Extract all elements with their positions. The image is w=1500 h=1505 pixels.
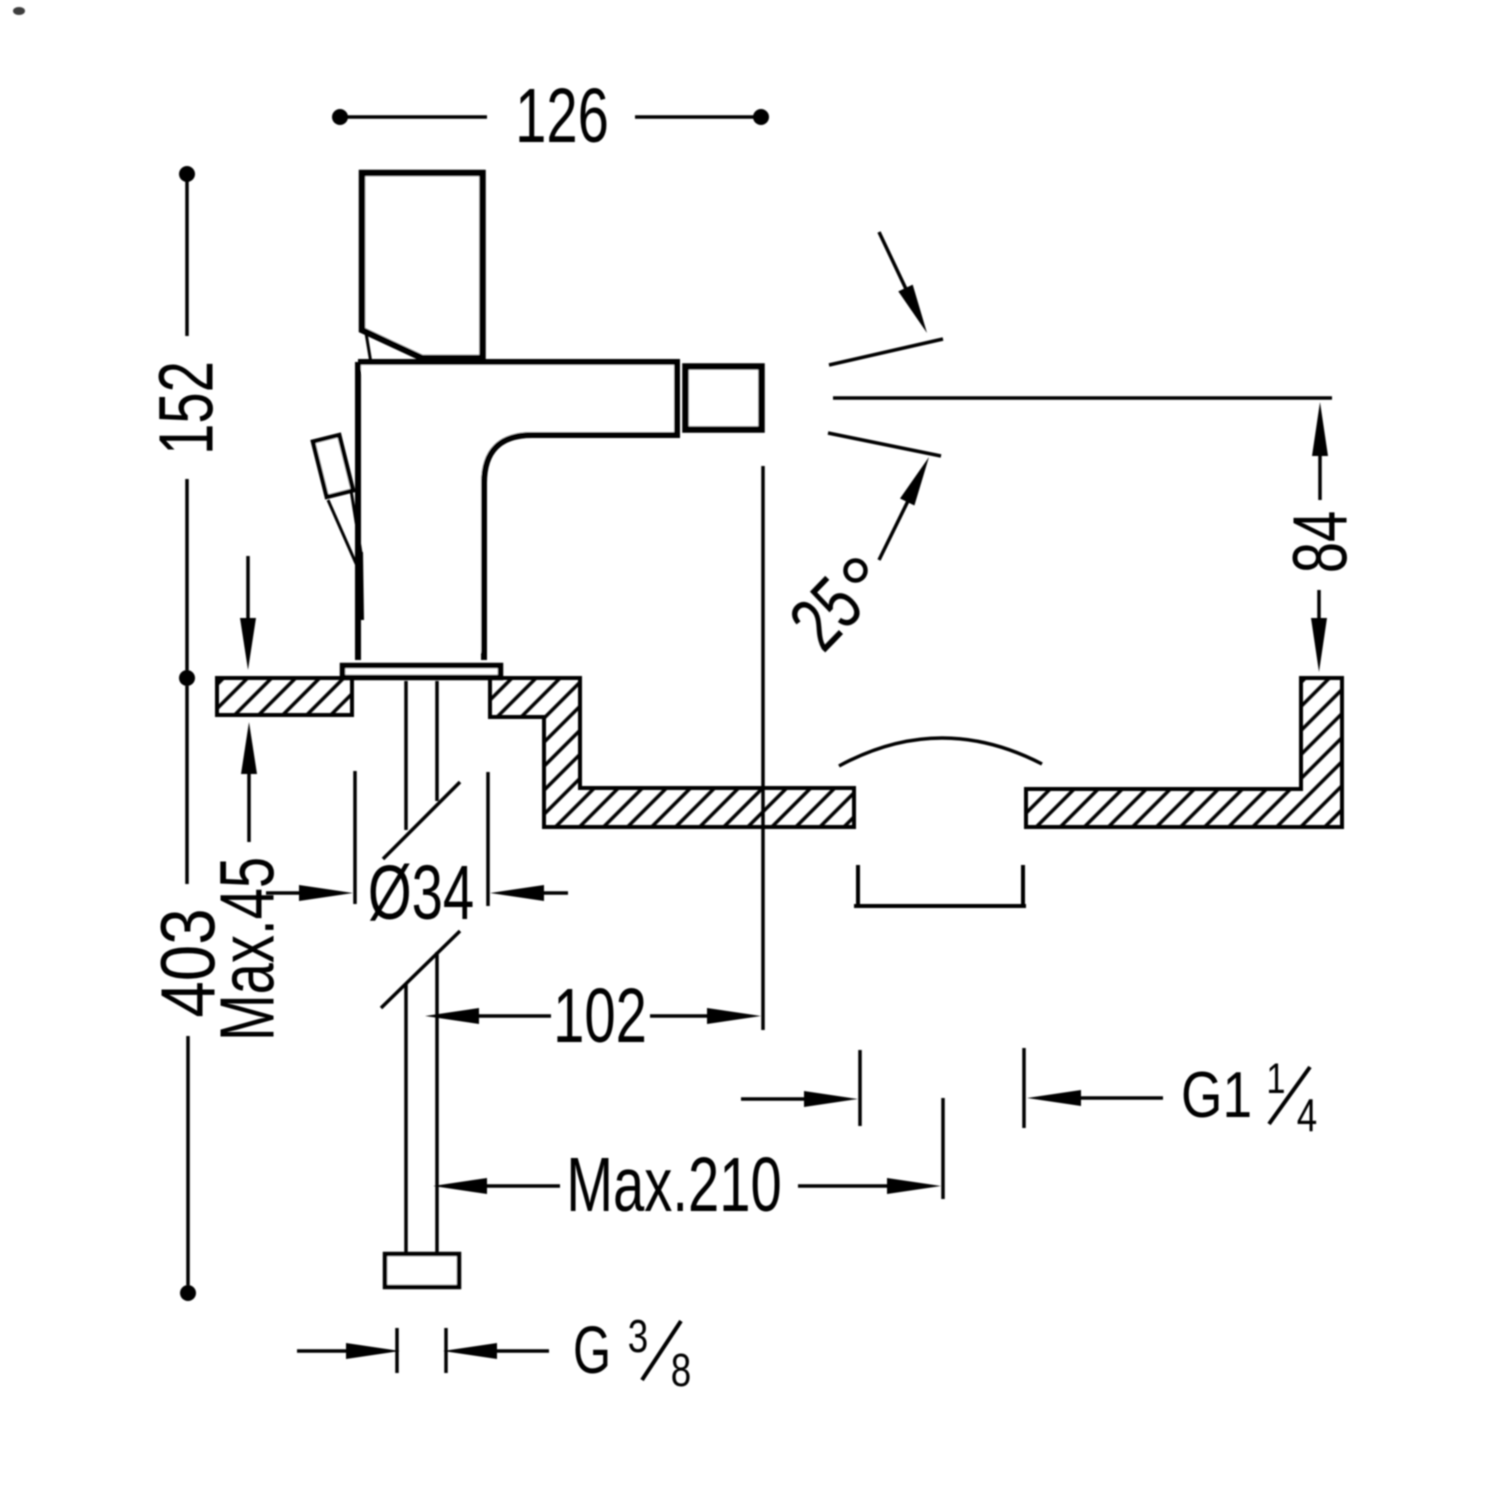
dia 34 extension line left <box>353 771 357 904</box>
svg-text:Max.210: Max.210 <box>566 1142 782 1228</box>
dia 34 right arrow <box>490 885 568 901</box>
drain hole right wall <box>1021 865 1025 906</box>
supply pipe left upper <box>404 681 408 830</box>
bowl rim arc <box>839 738 1042 766</box>
drain hole bottom <box>854 904 1026 908</box>
bottom fitting G3/8 <box>385 1254 459 1287</box>
dimension 102 left arrow <box>425 1008 551 1024</box>
svg-text:102: 102 <box>553 973 647 1059</box>
pipe break diagonal upper <box>383 782 460 859</box>
G 3/8 extension line left <box>395 1328 399 1373</box>
svg-text:G1: G1 <box>1181 1058 1252 1131</box>
dimension 84 top arrow <box>1312 402 1328 500</box>
G 3/8 label <box>573 1310 691 1396</box>
dimension 403 line lower <box>180 1036 196 1301</box>
spray angle lower line <box>828 433 941 456</box>
dimension 152 line upper <box>179 166 195 336</box>
G1 1/4 extension line left <box>858 1050 862 1126</box>
svg-text:G: G <box>573 1314 611 1388</box>
degree ring of 25 label <box>846 561 866 581</box>
dimension 152 line lower <box>179 479 195 686</box>
Max.45 down arrow <box>240 556 256 670</box>
Max.210 right arrow <box>798 1178 941 1194</box>
svg-text:8: 8 <box>671 1344 691 1396</box>
dimension 126 line left <box>332 109 487 125</box>
dimension 126 line right <box>635 109 769 125</box>
supply pipe right lower <box>435 952 439 1252</box>
svg-text:Max.45: Max.45 <box>205 857 291 1041</box>
spray angle upper line <box>829 339 943 365</box>
faucet handle <box>362 173 483 358</box>
G 3/8 extension line right <box>444 1328 448 1373</box>
Max.210 left arrow <box>433 1178 560 1194</box>
spray axis reference line <box>833 396 1332 400</box>
G 3/8 left arrow <box>297 1343 400 1359</box>
pop-up rod line a <box>328 500 358 568</box>
svg-text:1: 1 <box>1266 1055 1285 1102</box>
dimension 403 line upper <box>185 686 189 884</box>
Max.45 up arrow <box>241 722 257 842</box>
dia 34 left arrow <box>266 885 353 901</box>
svg-text:Ø34: Ø34 <box>368 850 474 936</box>
supply pipe left lower <box>404 984 408 1252</box>
artifact speck top-left <box>13 7 25 15</box>
drain hole left wall <box>856 865 860 906</box>
G 3/8 right arrow <box>443 1343 549 1359</box>
pop-up rod along body <box>361 552 362 620</box>
Max.210 extension line <box>941 1098 945 1199</box>
aerator <box>686 367 762 430</box>
pipe break diagonal lower <box>381 931 460 1008</box>
deck right L-section (hatched) <box>1026 678 1342 827</box>
spray angle top leader arrow <box>879 232 927 333</box>
G1 1/4 left arrow <box>741 1091 858 1107</box>
handle lever tip <box>366 333 371 363</box>
dia 34 extension line right <box>486 772 490 906</box>
G1 1/4 extension line right <box>1022 1048 1026 1128</box>
svg-text:84: 84 <box>1278 511 1364 574</box>
spray angle 25 leader arrow <box>879 457 929 560</box>
svg-text:152: 152 <box>144 361 230 455</box>
svg-text:3: 3 <box>628 1310 648 1362</box>
svg-text:126: 126 <box>515 73 609 159</box>
deck slab left (hatched) <box>217 678 352 715</box>
faucet body and spout <box>358 362 677 660</box>
dimension 102 right arrow <box>650 1008 761 1024</box>
supply pipe right upper <box>435 681 439 801</box>
dimension 84 bottom arrow <box>1311 590 1327 672</box>
pop-up rod line b <box>351 490 361 553</box>
deck mid Z-section (hatched) <box>490 678 854 827</box>
G1 1/4 label <box>1181 1055 1317 1140</box>
pop-up lever knob <box>313 435 353 497</box>
spout outlet reference line <box>761 466 765 1030</box>
svg-text:4: 4 <box>1297 1089 1317 1141</box>
G1 1/4 right arrow <box>1027 1090 1163 1106</box>
base flange <box>343 666 501 678</box>
